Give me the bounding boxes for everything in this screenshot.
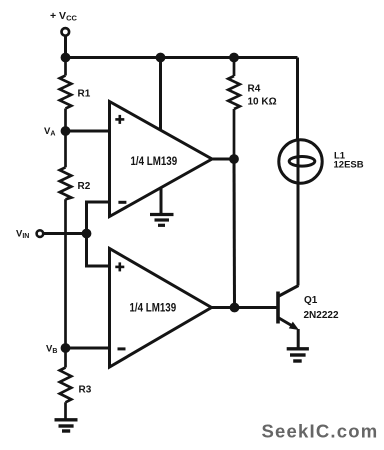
power terminal +Vcc circle	[62, 28, 70, 36]
svg-text:R4: R4	[248, 84, 261, 95]
junction U2 output node	[230, 303, 240, 313]
svg-text:R1: R1	[78, 89, 91, 100]
lamp L1 filament loop	[289, 157, 315, 167]
junction node VB	[61, 343, 71, 353]
wire top rail	[66, 56, 298, 59]
svg-text:1/4 LM139: 1/4 LM139	[131, 155, 178, 168]
junction Vin branch node	[82, 229, 92, 239]
ground under U1	[150, 215, 174, 226]
resistor R4	[228, 58, 240, 160]
junction Vcc node	[61, 53, 71, 63]
wire Vcc terminal to top rail	[64, 36, 67, 58]
resistor R2	[60, 131, 72, 348]
resistor R3	[60, 348, 72, 419]
wire Vin to branch node	[44, 232, 87, 235]
wire Vin to U2 + input	[87, 234, 110, 267]
svg-text:2N2222: 2N2222	[304, 310, 339, 321]
U2 plus input marker	[115, 262, 124, 271]
junction rail / R4 top	[229, 53, 239, 63]
transistor Q1 emitter lead	[278, 318, 295, 328]
input terminal Vin circle	[37, 230, 44, 237]
svg-text:Q1: Q1	[304, 295, 318, 306]
wire output bus R4 to U2 output	[233, 159, 237, 308]
svg-text:R3: R3	[79, 385, 92, 396]
wire U1 V+ power pin	[159, 58, 162, 131]
wire U1 output	[212, 158, 234, 161]
svg-text:12ESB: 12ESB	[334, 159, 364, 170]
transistor Q1 base bar	[276, 292, 280, 324]
transistor Q1 emitter arrowhead	[289, 322, 299, 330]
U1 plus input marker	[115, 115, 124, 124]
lamp L1 filament wire	[297, 140, 300, 183]
resistor R1	[60, 58, 72, 132]
ground under Q1	[287, 349, 309, 361]
junction U1 output node	[229, 154, 239, 164]
wire U2 output	[212, 306, 235, 309]
transistor Q1 collector lead	[278, 286, 299, 297]
lamp L1 circle	[279, 140, 322, 183]
svg-text:1/4 LM139: 1/4 LM139	[130, 302, 177, 315]
wire lamp drop from rail	[296, 58, 299, 141]
wire VB to U2 - input	[66, 347, 110, 350]
wire VA to U1 + input	[66, 130, 110, 133]
wire U1 V- pin to ground	[160, 188, 163, 215]
U2 minus input marker	[118, 347, 126, 350]
wire Vin to U1 - input	[87, 202, 110, 234]
ground under R3	[55, 420, 78, 431]
svg-text:10 KΩ: 10 KΩ	[248, 97, 277, 108]
op-amp U2 1/4 LM139 (lower comparator)	[110, 249, 212, 368]
U1 minus input marker	[118, 201, 126, 204]
junction rail / U1 power pin	[156, 53, 166, 63]
op-amp U1 1/4 LM139 (upper comparator)	[110, 102, 213, 217]
wire lamp to Q1 collector	[297, 183, 300, 285]
junction node VA	[61, 126, 71, 136]
svg-text:SeekIC.com: SeekIC.com	[262, 421, 379, 442]
wire Q1 emitter to ground	[297, 329, 300, 349]
wire U2 output to Q1 base	[235, 306, 277, 309]
svg-text:R2: R2	[78, 181, 91, 192]
